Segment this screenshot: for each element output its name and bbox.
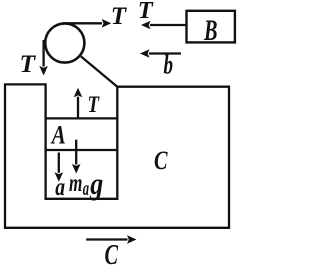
block A top line xyxy=(46,117,118,119)
svg-text:a: a xyxy=(55,174,65,201)
block C outline xyxy=(5,84,229,227)
arrowhead T left rope (down) xyxy=(39,66,48,76)
tension arrow T on A (up) xyxy=(77,97,79,118)
arrowhead T on A xyxy=(74,88,83,98)
rope over pulley (top, to right) xyxy=(63,22,102,24)
svg-text:a: a xyxy=(83,179,89,200)
svg-text:T: T xyxy=(88,92,101,118)
weight arrow m_a g (down) xyxy=(75,140,77,165)
svg-text:b: b xyxy=(164,49,174,79)
svg-text:T: T xyxy=(111,3,128,30)
svg-text:C: C xyxy=(105,240,119,270)
svg-text:T: T xyxy=(138,0,154,24)
svg-text:g: g xyxy=(89,166,103,201)
velocity arrow b (left) xyxy=(149,52,181,54)
pulley xyxy=(45,23,84,62)
arrowhead T on B xyxy=(141,21,151,30)
svg-text:A: A xyxy=(50,120,66,149)
rope from pulley to block C corner (diagonal) xyxy=(81,56,117,86)
acceleration arrow a (down) xyxy=(58,153,60,173)
svg-text:T: T xyxy=(20,49,37,78)
velocity arrow C (bottom, right) xyxy=(86,238,127,240)
svg-text:m: m xyxy=(69,170,82,197)
arrowhead C bottom xyxy=(127,235,137,244)
tension arrow T on B (left) xyxy=(150,24,187,26)
arrowhead a xyxy=(55,172,64,182)
block B xyxy=(187,11,235,43)
block A bottom line xyxy=(46,149,118,151)
rope left side of pulley (down) xyxy=(42,40,44,67)
arrowhead b xyxy=(140,49,150,58)
arrowhead T top xyxy=(102,19,112,28)
arrowhead m_a g xyxy=(72,164,81,174)
svg-text:B: B xyxy=(203,14,217,47)
svg-text:C: C xyxy=(154,146,168,175)
